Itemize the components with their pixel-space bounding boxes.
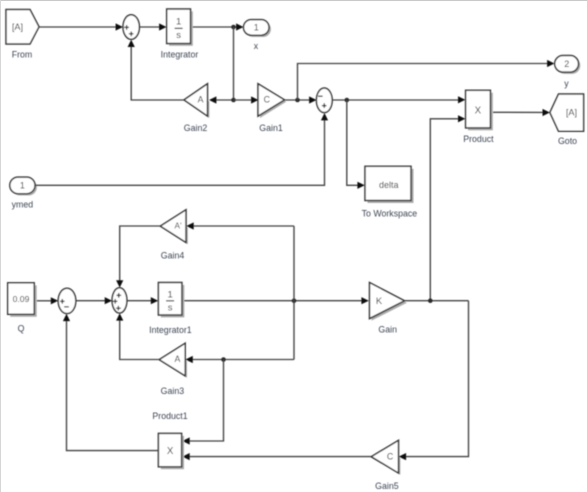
sum junction Sum4 (+ + +) <box>112 288 127 313</box>
wire Product to Goto <box>493 109 550 116</box>
svg-text:A: A <box>174 354 180 364</box>
node junction before Sum2 <box>295 98 300 103</box>
wire junction vertical to Gain4 and Gain3 rows <box>293 226 295 360</box>
wire From to Sum1 <box>39 23 123 30</box>
wire down right side to Gain5 input <box>399 301 469 461</box>
wire Product1 output to Sum3 bottom (feedback) <box>63 314 158 451</box>
wire Gain output to corner (and junction up to Product) <box>405 300 469 302</box>
svg-text:s: s <box>176 30 181 41</box>
svg-text:To Workspace: To Workspace <box>362 209 418 219</box>
svg-text:K: K <box>376 296 383 307</box>
wire Q to Sum3 <box>37 297 58 304</box>
svg-text:Product1: Product1 <box>152 411 187 421</box>
svg-text:A: A <box>198 95 204 105</box>
svg-text:X: X <box>475 106 482 117</box>
svg-text:1: 1 <box>254 23 259 33</box>
svg-text:X: X <box>167 446 174 457</box>
svg-text:Q: Q <box>18 323 25 333</box>
wire to Gain4 input <box>186 222 294 229</box>
wire Gain2 output to Sum1 (feedback) <box>128 40 184 100</box>
svg-text:delta: delta <box>379 180 399 190</box>
gain block Gain3 A (left-pointing) <box>159 343 187 396</box>
node junction gain row <box>231 98 236 103</box>
wire Sum3 to Sum4 <box>76 297 112 304</box>
svg-text:Integrator1: Integrator1 <box>149 325 192 335</box>
wire junction down to To Workspace <box>347 100 365 189</box>
svg-text:x: x <box>254 41 259 51</box>
wire ymed to Sum2 bottom input <box>35 113 328 185</box>
node junction on Gain3 input wire <box>221 357 226 362</box>
svg-text:C: C <box>264 95 271 105</box>
gain block Gain1 C (right-pointing) <box>258 84 286 133</box>
svg-text:Gain: Gain <box>378 324 397 334</box>
inport In1 ymed <box>10 177 37 209</box>
node junction on Gain output <box>428 298 433 303</box>
svg-text:0.09: 0.09 <box>13 294 30 304</box>
From tag block From [A] <box>6 10 39 60</box>
node junction after Integrator <box>231 25 236 30</box>
svg-text:C: C <box>387 451 394 461</box>
svg-text:Integrator: Integrator <box>161 50 199 60</box>
svg-text:y: y <box>564 78 569 88</box>
svg-text:A': A' <box>174 221 181 230</box>
wire Sum1 to Integrator <box>139 23 166 30</box>
to-workspace block delta <box>362 166 418 218</box>
svg-text:1: 1 <box>176 17 181 28</box>
sum junction Sum3 (+ -) <box>58 288 76 313</box>
wire Gain1 to Sum2 <box>285 96 317 103</box>
wire Integrator1 to Gain <box>184 297 368 304</box>
svg-text:From: From <box>12 50 33 60</box>
outport Out2 y <box>555 56 581 89</box>
wire Gain4 output to Sum4 top <box>116 226 160 288</box>
svg-text:Gain3: Gain3 <box>161 386 185 396</box>
svg-text:Product: Product <box>463 134 494 144</box>
svg-text:Gain2: Gain2 <box>184 123 208 133</box>
svg-text:Gain5: Gain5 <box>375 481 399 491</box>
sum junction Sum1 (+ +) <box>123 15 139 40</box>
wire Gain5 output to Product1 input 2 <box>182 453 371 460</box>
gain block Gain K (right-pointing) <box>370 283 408 335</box>
svg-text:1: 1 <box>167 289 172 300</box>
constant block Q 0.09 <box>8 283 37 334</box>
svg-text:[A]: [A] <box>12 22 23 32</box>
wire up from Gain output to Product input 2 <box>430 115 465 301</box>
svg-text:Goto: Goto <box>558 136 577 146</box>
gain block Gain4 A' (left-pointing) <box>160 210 188 260</box>
wire to Gain3 input <box>185 356 294 363</box>
wire junction down to Product1 input 1 <box>182 360 223 445</box>
product block Product X <box>463 90 494 144</box>
wire junction to Gain1 input <box>234 96 259 103</box>
product block Product1 X (flipped) <box>152 411 187 469</box>
svg-text:Gain4: Gain4 <box>161 250 185 260</box>
wire Integrator to Out1 x <box>193 23 244 30</box>
svg-text:Gain1: Gain1 <box>259 123 283 133</box>
svg-text:s: s <box>168 303 173 314</box>
svg-text:1: 1 <box>20 181 25 191</box>
wire Sum4 to Integrator1 <box>127 297 158 304</box>
svg-text:ymed: ymed <box>12 200 34 210</box>
node junction after Sum2 <box>345 98 350 103</box>
svg-text:2: 2 <box>564 59 569 69</box>
wire junction to Gain2 input <box>209 96 234 103</box>
sum junction Sum2 (- +) <box>316 88 332 113</box>
svg-text:[A]: [A] <box>566 108 577 118</box>
gain block Gain5 C (left-pointing) <box>371 440 400 491</box>
wire junction down to gain row <box>233 27 235 100</box>
integrator block Integrator1 1/s <box>149 283 192 336</box>
wire Sum2 to Product input 1 <box>332 96 465 103</box>
gain block Gain2 A (left-pointing) <box>184 84 210 133</box>
integrator block Integrator 1/s <box>161 9 199 60</box>
node junction after Integrator1 <box>292 298 297 303</box>
outport Out1 x <box>244 20 271 51</box>
wire Gain3 output to Sum4 bottom <box>116 313 159 359</box>
wire branch up to Out2 y <box>298 60 555 100</box>
goto tag block Goto [A] <box>550 94 584 146</box>
